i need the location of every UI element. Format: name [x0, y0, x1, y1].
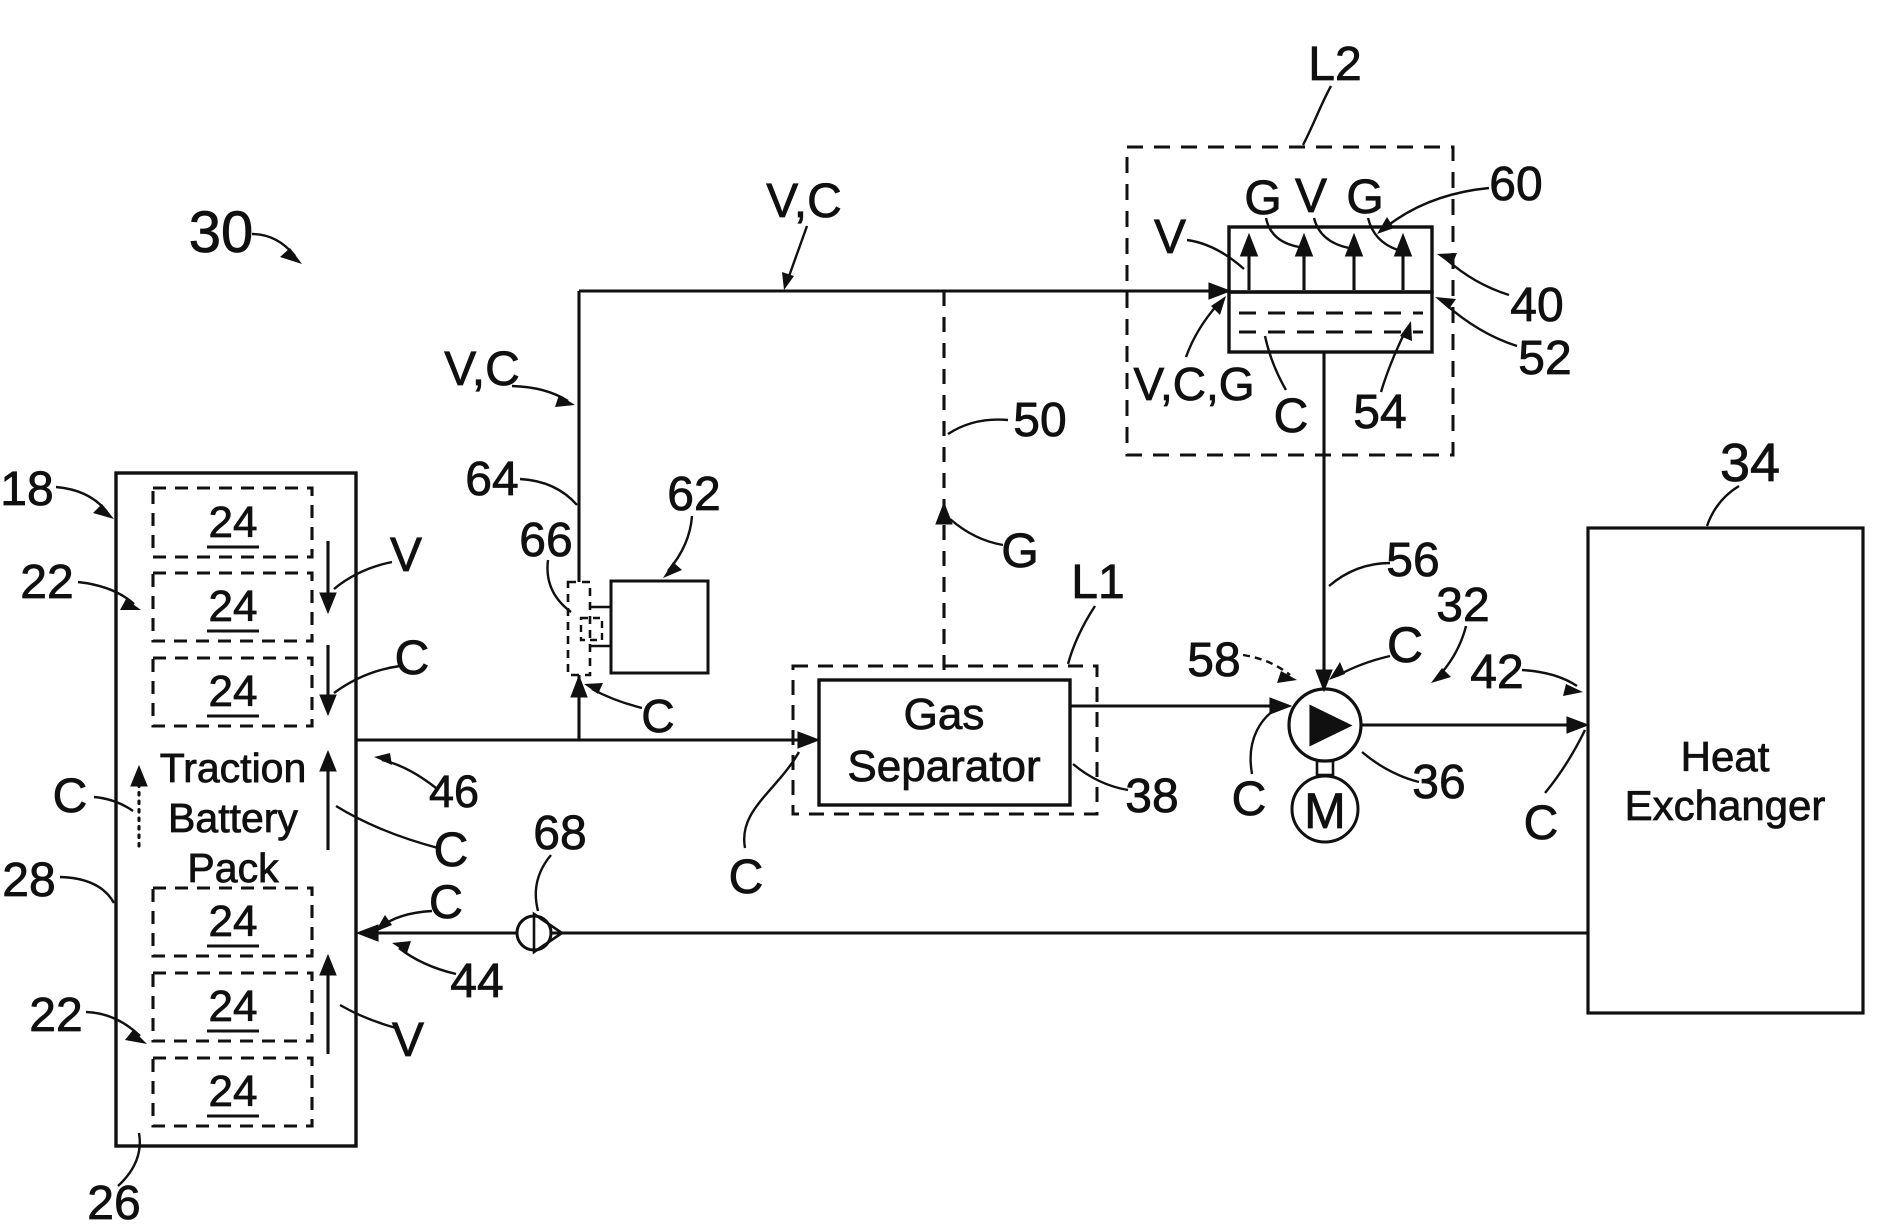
svg-text:24: 24 [209, 982, 258, 1031]
arrowhead into heat exchanger [1568, 719, 1585, 732]
component text [160, 745, 307, 891]
leader 32 [1438, 626, 1466, 677]
arrowhead into gas separator [799, 734, 816, 747]
leader C heat exchanger [1545, 730, 1585, 793]
arrowhead into manifold left [1210, 285, 1227, 298]
leader 62 [668, 516, 692, 571]
device 66 dashed body [568, 582, 590, 675]
battery up arrow 46 [326, 768, 329, 850]
battery module 24 box 3 [153, 658, 312, 726]
leader 68 [536, 855, 551, 911]
leader C battery left [94, 797, 133, 811]
leader 42 [1522, 670, 1577, 686]
svg-text:C: C [641, 690, 674, 742]
L1 dashed enclosure [793, 666, 1097, 814]
battery V down arrow top [326, 541, 329, 595]
leader 26 [118, 1133, 140, 1186]
battery dotted C up arrow left [137, 784, 140, 850]
svg-text:C: C [729, 851, 764, 904]
arrowhead into pump left [1271, 700, 1288, 713]
leader G [950, 519, 1003, 545]
leader 54 [1381, 330, 1406, 392]
manifold internal arrow 3 [1352, 254, 1355, 290]
svg-text:46: 46 [429, 766, 479, 817]
svg-text:24: 24 [209, 897, 258, 946]
hatch dashed line 1 in box 52 [1239, 311, 1423, 314]
svg-text:64: 64 [465, 453, 518, 506]
leader C pump top [1337, 656, 1390, 676]
manifold internal arrow 2 [1302, 254, 1305, 290]
svg-text:V: V [1295, 170, 1327, 223]
svg-text:56: 56 [1386, 534, 1439, 587]
leader C pump left [1251, 704, 1284, 774]
svg-text:C: C [1274, 390, 1309, 443]
wire 56 manifold to pump [1322, 352, 1325, 684]
leader 58 [1243, 655, 1290, 675]
svg-text:44: 44 [450, 955, 503, 1008]
svg-text:M: M [1304, 783, 1346, 839]
svg-text:C: C [53, 770, 88, 823]
traction battery pack outer box 18 [116, 473, 356, 1146]
wire pump to heat exchanger 42 [1361, 723, 1581, 726]
svg-text:Battery: Battery [168, 795, 298, 841]
pump-motor coupling square [1317, 761, 1333, 775]
svg-text:40: 40 [1510, 279, 1563, 332]
leader 40 [1446, 259, 1509, 295]
label Heat Exchanger [1625, 733, 1826, 829]
svg-text:50: 50 [1013, 394, 1066, 447]
controller box 62 [611, 581, 708, 673]
leader 18 [56, 487, 107, 512]
leader V2 manifold [1314, 218, 1349, 248]
leader 56 [1329, 563, 1390, 586]
svg-text:60: 60 [1489, 158, 1542, 211]
svg-text:Pack: Pack [187, 845, 279, 891]
svg-text:26: 26 [87, 1177, 140, 1224]
svg-text:G: G [1346, 171, 1383, 224]
svg-text:54: 54 [1353, 386, 1406, 439]
svg-text:24: 24 [209, 582, 258, 631]
wire 64 vertical segment [577, 291, 580, 582]
svg-text:36: 36 [1412, 756, 1465, 809]
wire below device 66 to C line junction [577, 675, 580, 740]
svg-text:C: C [1387, 617, 1423, 673]
svg-text:18: 18 [0, 463, 53, 516]
leader V manifold [1187, 240, 1244, 269]
leader 34 [1707, 486, 1739, 526]
leader G2 manifold [1368, 218, 1398, 250]
manifold upper box 40 [1229, 227, 1432, 292]
wire return line HX to valve 68 [552, 931, 1588, 934]
manifold lower hatched box 52 [1229, 292, 1432, 352]
battery module 24 box 4 [153, 888, 312, 956]
battery C down arrow [326, 645, 329, 697]
svg-text:Traction: Traction [160, 745, 307, 791]
manifold internal arrow 1 [1247, 254, 1250, 290]
svg-text:22: 22 [29, 989, 82, 1042]
leader 52 [1444, 303, 1517, 346]
arrowhead return line at battery [360, 927, 377, 940]
pump 32 circle [1289, 689, 1361, 761]
leader 64 [520, 479, 577, 505]
label Gas Separator [847, 690, 1040, 791]
svg-text:Separator: Separator [847, 742, 1040, 791]
svg-text:22: 22 [20, 556, 73, 609]
leader 22 bottom [86, 1012, 140, 1036]
svg-text:38: 38 [1125, 770, 1178, 823]
leader C device 66 [592, 689, 642, 708]
svg-text:V,C: V,C [766, 175, 842, 228]
leader G1 manifold [1266, 218, 1299, 247]
svg-text:24: 24 [209, 1067, 258, 1116]
battery module 24 box 6 [153, 1058, 312, 1126]
leader 60 [1386, 188, 1489, 227]
leader 28 [60, 877, 114, 903]
wire G dashed 50 [942, 291, 945, 680]
svg-text:V: V [390, 529, 422, 582]
battery V up arrow bottom [326, 972, 329, 1054]
svg-text:V,C: V,C [444, 343, 520, 396]
svg-text:Exchanger: Exchanger [1625, 782, 1826, 829]
svg-text:24: 24 [209, 667, 258, 716]
svg-text:G: G [1244, 172, 1281, 225]
device 66 to 62 connector top [590, 606, 611, 609]
svg-text:68: 68 [533, 807, 586, 860]
svg-text:34: 34 [1720, 433, 1780, 493]
svg-text:28: 28 [2, 854, 55, 907]
leader 38 [1073, 764, 1128, 790]
device 66 small dashed square [581, 618, 602, 640]
wire C battery to gas separator 46 [356, 738, 812, 741]
battery module number labels [207, 498, 259, 1116]
leader C gas separator inlet [744, 752, 799, 848]
manifold internal arrow 4 [1401, 254, 1404, 290]
leader L2 [1303, 86, 1331, 145]
leader C battery mid [334, 666, 400, 693]
leader 46 [382, 760, 436, 788]
wire gas separator to pump [1070, 704, 1284, 707]
valve 68 triangle [534, 914, 562, 952]
battery module 24 box 5 [153, 973, 312, 1041]
leader V,C top [788, 226, 807, 279]
motor M circle 36 [1292, 776, 1358, 842]
svg-text:Gas: Gas [904, 690, 985, 739]
arrowhead up on G dashed line [938, 506, 951, 523]
leader V,C left [512, 386, 568, 401]
svg-text:L2: L2 [1308, 38, 1361, 91]
leader V battery bottom [340, 1005, 396, 1028]
valve 68 circle [517, 916, 551, 950]
wire V,C top horizontal 64 to manifold [579, 289, 1224, 292]
leader C return [381, 911, 432, 927]
pump impeller triangle [1311, 707, 1349, 744]
leader 22 top [78, 582, 134, 604]
svg-text:V: V [392, 1014, 424, 1067]
leader L1 [1068, 606, 1095, 664]
battery module 24 box 2 [153, 573, 312, 641]
leader C battery 46 [336, 806, 438, 848]
svg-text:Heat: Heat [1681, 733, 1770, 780]
svg-text:42: 42 [1470, 646, 1523, 699]
svg-text:24: 24 [209, 498, 258, 547]
heat exchanger box 34 [1588, 528, 1863, 1013]
leader 44 [399, 948, 456, 974]
device 66 to 62 connector bottom [590, 645, 611, 648]
hatch dashed line 2 in box 52 [1239, 330, 1423, 333]
svg-text:C: C [1232, 773, 1267, 826]
battery module 24 box 1 [153, 488, 312, 557]
L2 dashed enclosure [1127, 147, 1453, 455]
leader V,C,G [1186, 304, 1218, 357]
svg-text:V: V [1154, 211, 1186, 264]
gas separator box 38 [819, 680, 1070, 805]
leader 36 [1362, 752, 1419, 782]
svg-text:66: 66 [519, 514, 572, 567]
svg-text:32: 32 [1436, 579, 1489, 632]
leader 30 [252, 234, 295, 256]
svg-text:C: C [1524, 797, 1559, 850]
svg-text:52: 52 [1518, 332, 1571, 385]
svg-text:G: G [1001, 525, 1038, 578]
leader 66 [547, 560, 571, 612]
svg-text:62: 62 [667, 468, 720, 521]
svg-text:C: C [429, 875, 463, 928]
svg-text:30: 30 [189, 200, 254, 265]
leader 50 [948, 420, 1008, 434]
svg-text:C: C [395, 632, 430, 685]
svg-text:58: 58 [1187, 634, 1240, 687]
wire return line valve to battery 44 [365, 931, 517, 934]
arrowhead wire 56 at pump top [1318, 671, 1331, 688]
leader V battery top [334, 562, 392, 589]
svg-text:L1: L1 [1071, 556, 1124, 609]
svg-text:V,C,G: V,C,G [1133, 358, 1254, 410]
svg-text:C: C [434, 824, 469, 877]
arrowhead up into device 66 [573, 679, 586, 696]
leader C manifold [1265, 336, 1286, 390]
